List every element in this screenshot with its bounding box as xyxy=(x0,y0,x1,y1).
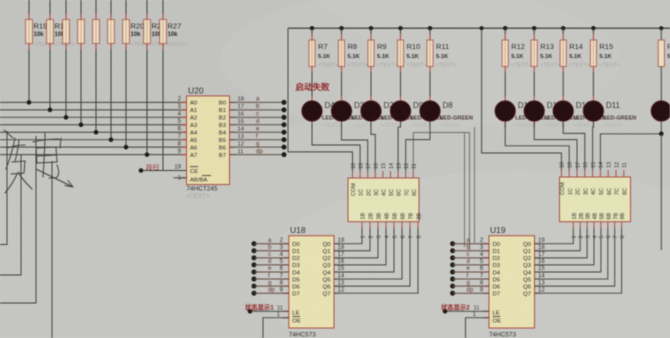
wire net A7 horizontal bus xyxy=(0,154,187,156)
node junction VCC rail drop right xyxy=(480,26,484,30)
wire D15 cathode to ULN2 5C xyxy=(600,122,661,170)
wire D11 cathode to ULN2 4C xyxy=(592,122,595,170)
IC U19 74HC573 latch xyxy=(483,225,541,338)
node junction A5 xyxy=(109,137,114,142)
wire U19 D2 input net c pin 4 xyxy=(450,252,489,260)
wire corner net left-2 xyxy=(0,155,21,275)
LED D12 LED-GREEN xyxy=(524,101,577,129)
wire U19 Q1 pin 18 to ULN2 2B xyxy=(535,229,581,251)
LED D13 LED-GREEN xyxy=(553,101,606,129)
wire net A0 horizontal bus xyxy=(0,101,187,103)
wire U19 LE net status-display-2 pin 11 xyxy=(441,302,489,313)
wire U18 D1 input net b pin 3 xyxy=(252,245,289,253)
resistor RL2 10k pull-up column xyxy=(63,0,70,117)
wire D3 cathode to ULN1 2C xyxy=(342,122,368,171)
annotation arrow xyxy=(36,169,73,187)
wire U19 Q3 pin 16 to ULN2 4B xyxy=(535,229,595,266)
wire net A6 horizontal bus xyxy=(0,146,187,148)
resistor R18 10k pull-up column xyxy=(47,0,75,110)
wire D10 cathode to ULN2 1C xyxy=(505,122,569,170)
node junction A1 xyxy=(48,108,53,113)
wire U18 Q0 pin 19 to ULN1 1B xyxy=(334,229,362,244)
wire U18 Q5 pin 14 to ULN1 6B xyxy=(334,229,402,280)
wire U18 D6 input net g pin 8 xyxy=(252,280,289,288)
resistor RL5 10k pull-up column xyxy=(108,0,115,140)
U20 left pin numbers 2-9 xyxy=(178,97,182,155)
wire U19 Q7 pin 12 to ULN2 8B xyxy=(535,229,622,294)
LED D11 LED-GREEN xyxy=(583,101,636,129)
LED D2 LED-GREEN xyxy=(361,101,414,129)
resistor R10 5.1K xyxy=(397,26,427,101)
wire U19 Q4 pin 15 to ULN2 5B xyxy=(535,229,601,273)
resistor R19 10k pull-up column xyxy=(26,0,54,102)
wire net A3 horizontal bus xyxy=(0,124,187,126)
wire U18 D2 input net c pin 4 xyxy=(252,252,289,260)
resistor R20 10k pull-up column xyxy=(123,0,151,147)
node junction A0 xyxy=(27,100,32,105)
wire U20 B4 output net e pin 14 xyxy=(230,126,287,134)
LED D8 LED-GREEN xyxy=(420,101,473,129)
wire U19 Q2 pin 17 to ULN2 3B xyxy=(535,229,588,259)
wire U20 B1 output net b pin 17 xyxy=(230,104,287,112)
IC U18 74HC573 latch xyxy=(283,225,340,338)
wire corner net left-3 xyxy=(0,136,36,303)
wire vertical mid net 1 xyxy=(464,133,466,247)
node junction D15 branch xyxy=(659,132,664,137)
resistor RL3 10k pull-up column xyxy=(78,0,85,125)
wire vertical mid net 2 xyxy=(474,127,476,243)
resistor R9 5.1K xyxy=(368,26,398,101)
wire U20 B5 output net f pin 13 xyxy=(230,134,287,142)
node junction A2 xyxy=(64,115,69,120)
resistor R11 5.1K xyxy=(427,26,457,101)
resistor R12 5.1K xyxy=(502,26,532,101)
wire vertical net left-4 xyxy=(51,161,53,338)
resistor R13 5.1K xyxy=(531,26,561,101)
wire ULN1 8C riser to right xyxy=(413,133,469,250)
wire U19 Q6 pin 13 to ULN2 7B xyxy=(535,229,615,287)
wire U19 D7 input net dp pin 9 xyxy=(450,287,489,295)
wire D2 cathode to ULN1 3C xyxy=(371,122,375,171)
wire D12 cathode to ULN2 2C xyxy=(534,122,577,170)
LED D3 LED-GREEN xyxy=(331,101,384,129)
IC U20 74HCT245 buffer xyxy=(181,86,236,201)
resistor R14 5.1K xyxy=(560,26,590,101)
IC U16 ULN2803 darlington array left xyxy=(348,163,423,239)
LED D15 far right xyxy=(651,101,670,121)
wire U18 OE pin 1 down to edge xyxy=(263,312,289,338)
resistor R26 10k pull-up column xyxy=(144,0,172,155)
resistor R15 5.1K xyxy=(590,26,620,101)
label startup-fail net text xyxy=(296,82,331,92)
wire net A4 horizontal bus xyxy=(0,131,187,133)
wire U20 B3 output net d pin 15 xyxy=(230,119,287,127)
wire U19 Q5 pin 14 to ULN2 6B xyxy=(535,229,608,280)
resistor R16 labels clipped xyxy=(667,42,670,60)
node junction A6 xyxy=(124,145,129,150)
wire D8 cathode to ULN1 7C xyxy=(406,122,430,171)
IC U17 ULN2803 darlington array right xyxy=(560,162,631,239)
wire U19 D3 input net d pin 5 xyxy=(450,259,489,267)
wire D15 net down right edge xyxy=(660,134,662,250)
wire U20 B0 output net a pin 18 xyxy=(230,97,287,105)
wire U18 D0 input net a pin 2 xyxy=(252,238,289,246)
wire U18 D5 input net f pin 7 xyxy=(252,273,289,281)
wire U19 D4 input net e pin 6 xyxy=(450,266,489,274)
wire U18 Q7 pin 12 to ULN1 8B xyxy=(334,229,418,294)
wire D4 cathode to ULN1 1C xyxy=(312,122,360,171)
annotation handwritten character 2 xyxy=(33,133,61,178)
wire U18 Q4 pin 15 to ULN1 5B xyxy=(334,229,394,273)
wire U18 D4 input net e pin 6 xyxy=(252,266,289,274)
wire U20 B7 output net dp pin 11 xyxy=(230,149,287,157)
wire U19 OE pin 1 down to edge xyxy=(466,312,490,338)
LED D10 LED-GREEN xyxy=(495,101,548,129)
wire U18 D7 input net dp pin 9 xyxy=(252,287,289,295)
node junction A7 xyxy=(145,152,150,157)
wire net A1 horizontal bus xyxy=(0,109,187,111)
wire U19 D5 input net f pin 7 xyxy=(450,273,489,281)
wire corner net left-1 xyxy=(0,131,7,245)
wire U18 Q3 pin 16 to ULN1 4B xyxy=(334,229,386,266)
LED D9 LED-GREEN xyxy=(390,101,443,129)
wire VCC drop to ULN2 COM xyxy=(482,28,562,170)
wire U18 Q1 pin 18 to ULN1 2B xyxy=(334,229,370,251)
wire U18 LE net status-display-1 pin 11 xyxy=(245,302,289,313)
wire U20 B6 output net g pin 12 xyxy=(230,141,287,149)
wire D9 cathode to ULN1 6C xyxy=(398,122,400,171)
wire U18 Q6 pin 13 to ULN1 7B xyxy=(334,229,410,287)
resistor R16 5.1K far right xyxy=(658,26,664,101)
wire U19 D6 input net g pin 8 xyxy=(450,280,489,288)
wire U19 D0 input net a pin 2 xyxy=(450,238,489,246)
resistor R8 5.1K xyxy=(338,26,368,101)
wire VCC power rail xyxy=(288,27,670,29)
resistor R27 10k pull-up column xyxy=(160,0,188,171)
wire U20 B2 output net c pin 16 xyxy=(230,112,287,120)
wire U18 D3 input net d pin 5 xyxy=(252,259,289,267)
node junction A4 xyxy=(94,130,99,135)
LED D4 LED-GREEN xyxy=(302,101,355,129)
wire U20 CE net with label xyxy=(139,163,187,182)
resistor R7 5.1K xyxy=(309,26,339,101)
node junction A3 xyxy=(79,122,84,127)
resistor RL4 10k pull-up column xyxy=(93,0,100,132)
annotation handwritten character 1 xyxy=(4,130,32,193)
wire U19 Q0 pin 19 to ULN2 1B xyxy=(535,229,574,244)
noise overlay xyxy=(0,0,1,1)
wire U19 D1 input net b pin 3 xyxy=(450,245,489,253)
wire net A5 horizontal bus xyxy=(0,139,187,141)
wire D13 cathode to ULN2 3C xyxy=(563,122,585,170)
wire net A2 horizontal bus xyxy=(0,116,187,118)
wire U18 Q2 pin 17 to ULN1 3B xyxy=(334,229,378,259)
wire VCC drop to ULN1 COM xyxy=(288,28,353,171)
